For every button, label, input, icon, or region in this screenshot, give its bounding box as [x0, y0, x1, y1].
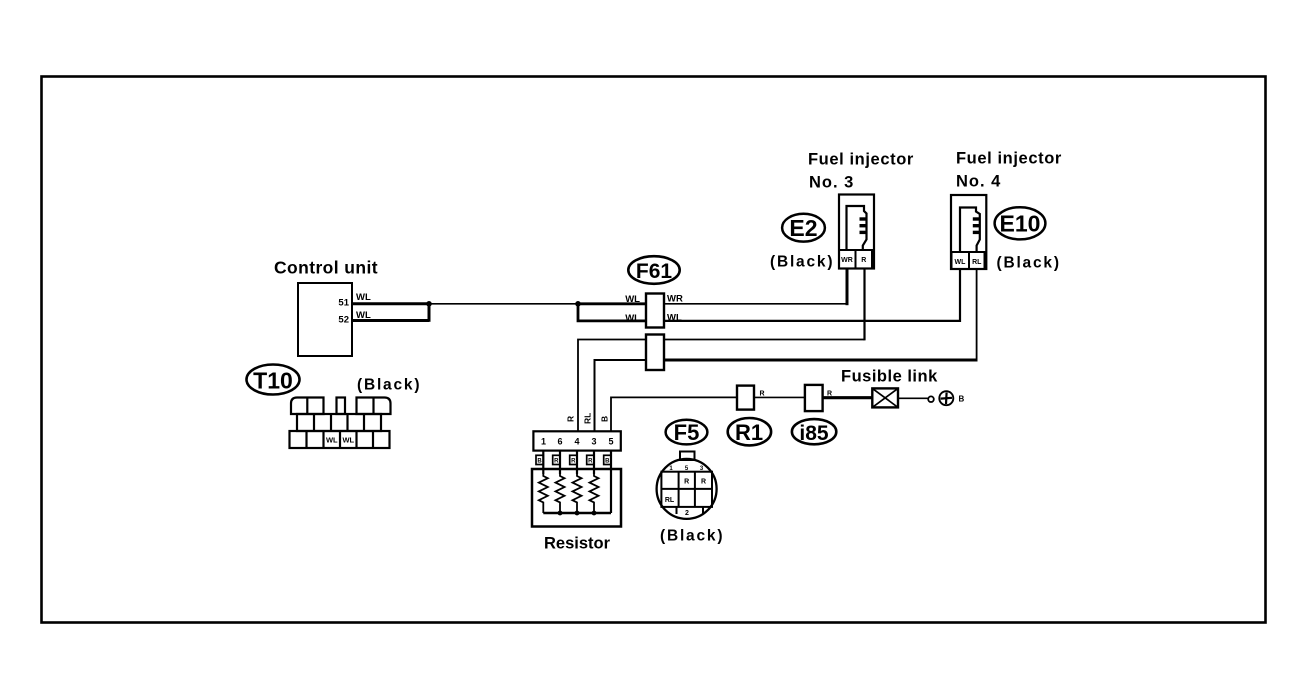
junction dot A	[426, 301, 432, 307]
svg-text:Resistor: Resistor	[544, 535, 611, 553]
svg-text:B: B	[537, 459, 542, 465]
wire pin5 B riser	[611, 397, 737, 431]
svg-text:B: B	[959, 395, 965, 404]
wire resistor pin3 riser	[595, 360, 647, 432]
svg-text:B: B	[600, 416, 610, 422]
svg-text:RL: RL	[583, 413, 593, 424]
svg-text:WL: WL	[326, 436, 338, 445]
resistor common bus	[543, 512, 611, 515]
injector4 coil	[960, 208, 980, 253]
svg-text:WL: WL	[955, 259, 967, 266]
wire tag box 3	[570, 455, 577, 464]
F5 round connector circle	[657, 459, 717, 519]
wire resistor pin4 riser	[578, 340, 646, 432]
svg-text:T10: T10	[253, 368, 293, 394]
svg-text:2: 2	[685, 510, 689, 517]
svg-text:R: R	[861, 257, 866, 264]
wire injector4 RL drop	[976, 269, 978, 362]
wire tag box 1	[536, 455, 543, 464]
svg-text:4: 4	[574, 437, 579, 447]
resistor element 4	[590, 474, 599, 513]
wire tag box 2	[553, 455, 560, 464]
connector F5 oval	[666, 420, 708, 445]
svg-text:(Black): (Black)	[357, 377, 421, 394]
svg-text:Fuel injector: Fuel injector	[956, 150, 1062, 168]
connector T10 oval	[247, 365, 300, 395]
svg-text:R: R	[571, 459, 576, 465]
connector i85 box	[805, 385, 823, 411]
resistor pin leads through tag boxes	[542, 451, 544, 474]
F5 round connector tab	[680, 452, 695, 461]
wire F61 WR to injector3	[664, 303, 848, 305]
T10 connector bricks top row	[291, 398, 324, 415]
resistor strip connector	[533, 431, 620, 450]
wire box2 to injector3 R	[664, 339, 865, 341]
wire injector4 WL drop	[959, 269, 961, 322]
wire 52 vertical to junction	[428, 304, 431, 322]
fuel injector No.3 body	[839, 195, 874, 269]
svg-text:(Black): (Black)	[997, 255, 1061, 272]
resistor element 2	[556, 474, 565, 513]
svg-text:3: 3	[591, 437, 596, 447]
injector3 terminal WR	[839, 250, 856, 269]
wire tag box 5	[604, 455, 611, 464]
wire 51 thin segment	[429, 303, 578, 305]
connector R1 box	[737, 386, 754, 410]
resistor body box	[532, 469, 621, 527]
wire junction B drop	[578, 304, 646, 321]
svg-text:(Black): (Black)	[660, 528, 724, 545]
svg-text:R: R	[760, 391, 765, 398]
svg-text:52: 52	[338, 315, 349, 326]
svg-text:R: R	[554, 459, 559, 465]
svg-text:R: R	[684, 479, 689, 486]
svg-text:WR: WR	[667, 294, 683, 305]
wire R1 to i85	[754, 396, 805, 398]
svg-text:F61: F61	[636, 260, 673, 283]
svg-text:R: R	[566, 416, 576, 422]
svg-text:6: 6	[557, 437, 562, 447]
junction dot B	[575, 301, 581, 307]
T10 bottom row	[290, 431, 390, 448]
svg-text:RL: RL	[665, 497, 675, 504]
wire i85 to fusible link	[823, 396, 873, 399]
injector4 terminal RL	[969, 252, 985, 269]
svg-text:F5: F5	[674, 420, 700, 445]
bus junction dots	[558, 511, 563, 516]
wire box2 to injector4 RL	[664, 359, 977, 362]
control unit U1	[298, 283, 352, 356]
wire tag box 4	[587, 455, 594, 464]
wire 51 bold segment	[352, 302, 429, 305]
svg-text:WL: WL	[356, 292, 371, 303]
connector E2 oval	[782, 214, 825, 242]
svg-text:1: 1	[541, 437, 546, 447]
connector F61 box	[646, 294, 664, 328]
svg-text:WL: WL	[342, 436, 354, 445]
wire 52 horizontal	[352, 319, 429, 322]
fuel injector No.4 body	[951, 195, 986, 269]
resistor element 1	[539, 474, 548, 513]
connector F61 oval	[628, 256, 679, 284]
svg-text:RL: RL	[972, 259, 982, 266]
svg-text:i85: i85	[799, 422, 829, 445]
wire 51 into F61	[578, 302, 646, 305]
connector E10 oval	[995, 207, 1046, 239]
svg-text:Fuel injector: Fuel injector	[808, 151, 914, 169]
resistor element 3	[573, 474, 582, 513]
wire injector3 WR drop	[846, 269, 849, 306]
connector box2 below F61	[646, 335, 664, 371]
terminal circle	[928, 396, 934, 402]
wire F61 WL to injector4	[664, 320, 960, 322]
svg-text:No. 4: No. 4	[956, 173, 1001, 191]
svg-text:R1: R1	[735, 420, 763, 445]
battery symbol	[939, 391, 953, 405]
svg-text:E2: E2	[789, 215, 817, 241]
svg-text:WL: WL	[625, 313, 640, 324]
F5 bottom cell	[676, 507, 678, 514]
svg-text:B: B	[605, 459, 610, 465]
connector R1 oval	[728, 418, 771, 445]
svg-text:5: 5	[608, 437, 613, 447]
wire injector3 R drop	[863, 269, 865, 341]
T10 middle row	[297, 414, 381, 431]
svg-text:WR: WR	[841, 257, 853, 264]
svg-text:No. 3: No. 3	[809, 174, 854, 192]
injector4 terminal WL	[952, 252, 970, 269]
F5 grid	[661, 472, 712, 507]
svg-text:WL: WL	[625, 294, 640, 305]
injector3 terminal R	[856, 250, 873, 269]
svg-text:Fusible link: Fusible link	[841, 368, 938, 386]
svg-text:Control unit: Control unit	[274, 258, 378, 278]
svg-text:(Black): (Black)	[770, 254, 834, 271]
T10 tab	[337, 398, 346, 415]
fusible link symbol	[872, 388, 898, 407]
connector i85 oval	[792, 419, 836, 444]
injector3 coil	[847, 206, 867, 250]
svg-text:R: R	[588, 459, 593, 465]
svg-text:R: R	[701, 479, 706, 486]
wire fusible link to battery	[898, 397, 928, 399]
svg-text:E10: E10	[1000, 211, 1041, 237]
border frame	[42, 77, 1266, 623]
svg-text:51: 51	[338, 298, 349, 309]
